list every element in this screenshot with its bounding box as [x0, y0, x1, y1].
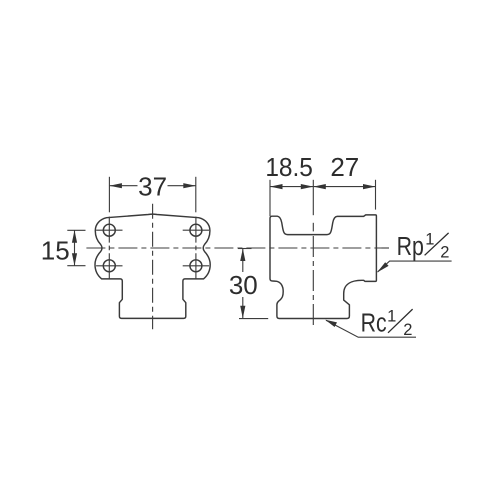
centerlines [86, 204, 389, 330]
svg-text:37: 37 [138, 172, 167, 202]
svg-text:30: 30 [229, 270, 258, 300]
svg-text:Rp: Rp [397, 232, 424, 262]
svg-text:18.5: 18.5 [265, 153, 313, 182]
dimension 37 [109, 177, 195, 213]
svg-text:Rc: Rc [361, 309, 387, 339]
left view: bolt hole top-right [190, 224, 202, 236]
svg-text:1: 1 [387, 307, 396, 325]
svg-text:2: 2 [440, 243, 449, 261]
svg-text:27: 27 [330, 152, 359, 182]
left view: bolt hole top-left [103, 224, 115, 236]
hole row centerline upper-left [96, 229, 122, 231]
svg-text:1: 1 [425, 230, 434, 248]
dimension 30 [238, 249, 268, 319]
dimension 18.5 / 27 [270, 180, 376, 216]
hole column centerline left [108, 217, 110, 279]
right view vertical axis [312, 236, 314, 329]
left view: flange body outline [95, 214, 210, 318]
hole row centerline lower-left [96, 265, 122, 267]
left view vertical axis [152, 204, 154, 330]
main horizontal axis [86, 247, 389, 249]
leader Rp 1/2 [378, 261, 452, 272]
hole row centerline upper-right [183, 229, 209, 231]
dimension 15 [67, 230, 85, 265]
left view: bolt hole bottom-left [103, 260, 115, 272]
left view: bolt hole bottom-right [190, 260, 202, 272]
svg-text:2: 2 [403, 321, 412, 339]
hole column centerline right [195, 217, 197, 279]
hole row centerline lower-right [183, 265, 209, 267]
svg-text:15: 15 [41, 236, 70, 266]
right view: fitting body outline [270, 215, 376, 319]
leader Rc 1/2 [326, 320, 416, 337]
right view vertical axis upper dash [312, 223, 314, 232]
